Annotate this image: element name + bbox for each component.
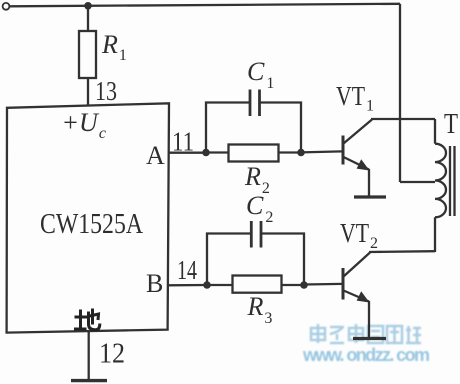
wire C1 right riser	[260, 103, 302, 153]
node A left junction	[202, 149, 210, 157]
svg-text:13: 13	[95, 76, 117, 106]
wire R1 bottom lead to pin 13	[87, 78, 89, 106]
ground pin 12 bar	[71, 379, 107, 382]
op-amp U1 CW1525A IC box	[7, 103, 169, 332]
ground VT2 emitter bar	[353, 337, 386, 340]
svg-text:VT: VT	[340, 218, 369, 248]
wire R2 to junction	[279, 151, 302, 153]
svg-text:12: 12	[99, 338, 125, 370]
resistor R1	[79, 31, 96, 78]
wire VT2 collector to transformer bottom	[369, 250, 435, 253]
node junction top (R1 tap)	[84, 2, 92, 10]
watermark line 1: 电子电路图站	[311, 324, 421, 343]
wire C2 right riser	[261, 234, 304, 286]
wire C1 left riser	[206, 103, 250, 153]
svg-text:R1: R1	[101, 30, 127, 64]
input terminal circle	[3, 3, 10, 10]
wire pin 14 lead	[167, 284, 207, 287]
wire R3 to junction	[282, 284, 305, 286]
wire pin 11 lead	[168, 152, 206, 154]
svg-text:CW1525A: CW1525A	[40, 208, 143, 240]
svg-text:www. ondzz. com: www. ondzz. com	[302, 345, 430, 365]
svg-text:VT: VT	[336, 81, 365, 111]
wire C2 left riser	[207, 234, 251, 286]
svg-text:B: B	[146, 269, 163, 298]
wire VT2 emitter	[368, 301, 370, 337]
resistor R3	[233, 276, 282, 293]
node A right junction	[297, 149, 305, 157]
wire pin 12 lead	[88, 331, 90, 379]
label 地 (ground pin name)	[74, 309, 100, 330]
wire base VT1	[301, 151, 342, 152]
transformer T primary winding	[434, 119, 436, 144]
wire right power rail vertical	[399, 4, 401, 182]
transformer core	[449, 146, 451, 216]
wire A to R2	[206, 151, 229, 153]
svg-text:11: 11	[172, 127, 194, 157]
node B left junction	[203, 281, 211, 289]
wire top rail	[10, 4, 401, 7]
wire base VT2	[304, 283, 342, 286]
wire B to R3	[207, 284, 233, 286]
capacitor C2	[250, 221, 253, 248]
svg-text:A: A	[146, 141, 165, 170]
node B right junction	[300, 281, 308, 289]
svg-text:C1: C1	[247, 57, 274, 92]
capacitor C1	[249, 90, 252, 117]
transistor Q1 VT1	[342, 136, 345, 165]
svg-text:T: T	[444, 109, 458, 140]
svg-text:R3: R3	[247, 292, 273, 327]
resistor R2	[229, 145, 279, 162]
svg-text:+Uc: +Uc	[62, 108, 106, 142]
svg-text:2: 2	[370, 235, 378, 252]
ground VT1 emitter bar	[354, 195, 386, 198]
wire VT1 collector to transformer	[371, 118, 435, 120]
wire R1 top lead	[87, 6, 89, 31]
transistor Q2 VT2	[342, 268, 345, 300]
svg-text:1: 1	[366, 98, 374, 115]
wire center tap	[400, 181, 435, 183]
svg-text:14: 14	[177, 255, 197, 285]
wire VT1 emitter	[368, 169, 370, 196]
